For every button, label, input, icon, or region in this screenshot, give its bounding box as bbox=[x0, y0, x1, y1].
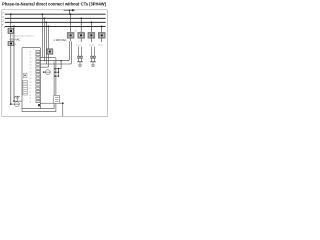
ground symbol G2 bbox=[90, 62, 96, 67]
node F4 tap bbox=[101, 26, 103, 28]
svg-text:V3: V3 bbox=[29, 58, 31, 60]
svg-text:I31: I31 bbox=[29, 78, 31, 80]
svg-text:I31 I32: I31 I32 bbox=[98, 45, 103, 47]
svg-text:V2: V2 bbox=[29, 55, 31, 57]
svg-text:I22: I22 bbox=[29, 75, 31, 77]
bottom output wire bbox=[40, 102, 63, 116]
svg-text:Auxiliary Control Transformer: Auxiliary Control Transformer bbox=[12, 35, 35, 38]
fuse F2 bbox=[78, 32, 85, 38]
svg-text:Phase-to-Neutral direct connec: Phase-to-Neutral direct connect without … bbox=[2, 1, 107, 6]
svg-text:VN: VN bbox=[29, 61, 31, 63]
wire aux N down bbox=[13, 26, 15, 101]
wire VN to terminal bbox=[40, 66, 48, 68]
shorted CT pair I1 bbox=[78, 47, 83, 62]
fuse F3 bbox=[88, 32, 95, 38]
frame bbox=[2, 10, 108, 117]
aux disconnect bbox=[8, 41, 16, 46]
node V2 tap bbox=[43, 17, 45, 19]
wire bus L3 bbox=[5, 21, 106, 23]
wire aux N into meter bbox=[14, 100, 22, 102]
wire V2 to terminal with arc to fuse1 bbox=[40, 41, 69, 60]
N line break tick bbox=[4, 26, 6, 28]
wire V3 drop bbox=[45, 22, 47, 64]
svg-text:Fb: Fb bbox=[75, 30, 77, 32]
load direction arrow bbox=[64, 9, 75, 14]
voltage fuse block bbox=[47, 49, 54, 55]
ground symbol G1 bbox=[77, 62, 83, 67]
terminal strip bbox=[29, 50, 40, 106]
chassis ground flag bbox=[14, 96, 19, 100]
right entry wires bbox=[54, 60, 61, 77]
fuse F4 bbox=[98, 32, 105, 38]
node aux N tap bbox=[13, 26, 15, 28]
node V3 tap bbox=[45, 21, 47, 23]
wire V1 to terminal bbox=[40, 57, 55, 59]
node F3 tap bbox=[91, 21, 93, 23]
fuse F1 bbox=[67, 30, 76, 38]
shorted CT pair I2 bbox=[91, 47, 96, 62]
svg-text:~230 VAC: ~230 VAC bbox=[9, 37, 21, 41]
wire F2 out bbox=[80, 38, 82, 42]
wire V1 drop bbox=[41, 14, 43, 57]
node aux N end bbox=[13, 100, 15, 102]
wire F4 drop bbox=[101, 26, 103, 32]
wire aux L mid bbox=[10, 34, 12, 42]
svg-text:S1: S1 bbox=[29, 98, 31, 100]
svg-text:D2: D2 bbox=[29, 88, 31, 90]
node aux L1 tap bbox=[10, 13, 12, 15]
comms module hatched bbox=[23, 80, 27, 95]
wire F3 drop bbox=[90, 22, 92, 32]
svg-text:K1: K1 bbox=[29, 92, 31, 94]
svg-text:D1: D1 bbox=[29, 85, 31, 87]
power supply module bbox=[23, 73, 27, 78]
earth circle symbol bbox=[43, 70, 51, 75]
svg-text:I12: I12 bbox=[29, 68, 31, 70]
wire aux L drop bbox=[10, 14, 12, 28]
wire F1 out bbox=[70, 38, 72, 41]
fuse F-aux bbox=[8, 28, 14, 34]
wire bus L1 bbox=[5, 13, 106, 15]
svg-text:K2: K2 bbox=[29, 95, 31, 97]
wire bus N bbox=[5, 25, 106, 27]
wire F1 drop bbox=[70, 14, 72, 32]
wire F3 out bbox=[90, 38, 92, 42]
ground electrode symbol bbox=[11, 102, 20, 107]
wire F2 drop bbox=[80, 18, 82, 32]
svg-text:I21: I21 bbox=[29, 71, 31, 73]
svg-text:I11: I11 bbox=[29, 65, 31, 67]
wire V2 drop bbox=[43, 18, 45, 60]
wire bus L2 bbox=[5, 17, 106, 19]
node VN tap bbox=[47, 26, 49, 28]
meter enclosure bbox=[22, 48, 56, 112]
wire VN drop bbox=[47, 26, 49, 67]
node F1 tap bbox=[70, 13, 72, 15]
wire aux L down bbox=[10, 46, 12, 104]
svg-text:I32: I32 bbox=[29, 81, 31, 83]
svg-text:V1: V1 bbox=[29, 51, 31, 53]
node F2 tap bbox=[80, 17, 82, 19]
svg-text:≤ 480 VAC: ≤ 480 VAC bbox=[54, 38, 67, 42]
svg-text:S2: S2 bbox=[29, 102, 31, 104]
svg-text:Fb: Fb bbox=[14, 44, 16, 46]
wire V3 to terminal with arc to fuse1 bbox=[40, 41, 71, 64]
comms port box bbox=[54, 95, 60, 103]
node V1 tap bbox=[42, 13, 44, 15]
wire F4 out bbox=[101, 38, 103, 42]
node aux L end bbox=[10, 103, 12, 105]
terminal dark block bbox=[38, 104, 40, 106]
